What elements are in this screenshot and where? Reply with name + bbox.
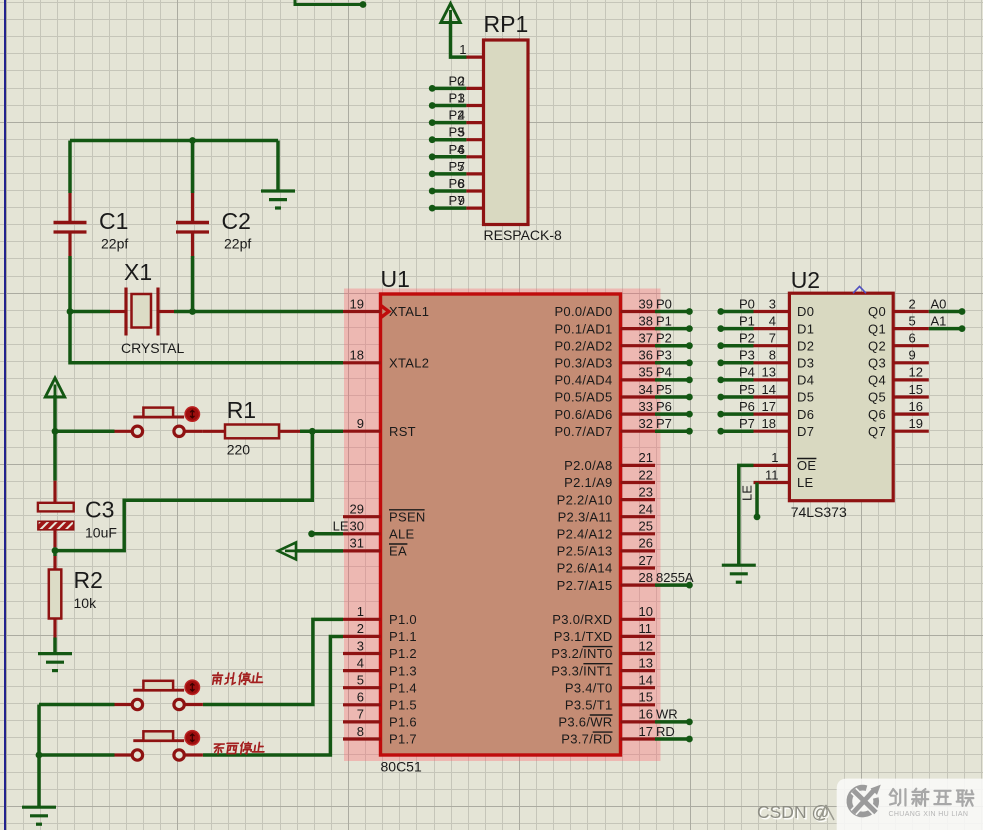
svg-text:1: 1 xyxy=(459,42,466,57)
svg-text:P1.5: P1.5 xyxy=(389,698,417,713)
svg-text:34: 34 xyxy=(639,382,653,397)
svg-text:U2: U2 xyxy=(791,267,820,293)
svg-text:15: 15 xyxy=(639,690,653,705)
svg-text:R2: R2 xyxy=(74,567,103,593)
svg-text:1: 1 xyxy=(771,450,778,465)
svg-text:R1: R1 xyxy=(227,397,256,423)
svg-text:13: 13 xyxy=(639,655,653,670)
svg-text:17: 17 xyxy=(762,399,776,414)
svg-text:P2.0/A8: P2.0/A8 xyxy=(564,458,612,473)
svg-text:7: 7 xyxy=(769,331,776,346)
svg-text:P3.3/INT1: P3.3/INT1 xyxy=(551,663,612,678)
svg-text:P1.4: P1.4 xyxy=(389,680,417,695)
svg-text:P7: P7 xyxy=(656,416,672,431)
svg-text:P3.5/T1: P3.5/T1 xyxy=(565,698,613,713)
svg-text:10: 10 xyxy=(639,604,653,619)
svg-text:P6: P6 xyxy=(739,399,755,414)
svg-text:13: 13 xyxy=(762,365,776,380)
svg-text:P2.2/A10: P2.2/A10 xyxy=(557,492,613,507)
svg-text:D5: D5 xyxy=(797,390,814,405)
svg-text:CSDN @: CSDN @ xyxy=(757,802,829,822)
svg-text:P5: P5 xyxy=(739,382,755,397)
svg-text:7: 7 xyxy=(458,159,465,174)
svg-text:8: 8 xyxy=(458,176,465,191)
svg-text:5: 5 xyxy=(458,125,465,140)
svg-text:220: 220 xyxy=(227,442,251,458)
svg-text:EA: EA xyxy=(389,544,407,559)
svg-text:P3: P3 xyxy=(739,348,755,363)
svg-text:P0.4/AD4: P0.4/AD4 xyxy=(554,373,612,388)
svg-text:Q3: Q3 xyxy=(868,356,886,371)
svg-text:C1: C1 xyxy=(99,208,128,234)
svg-text:ALE: ALE xyxy=(389,527,415,542)
svg-text:P0: P0 xyxy=(739,296,755,311)
svg-text:21: 21 xyxy=(639,450,653,465)
svg-text:31: 31 xyxy=(350,536,364,551)
svg-text:P5: P5 xyxy=(656,382,672,397)
svg-text:Q6: Q6 xyxy=(868,407,886,422)
svg-text:P0.3/AD3: P0.3/AD3 xyxy=(554,356,612,371)
svg-text:C3: C3 xyxy=(85,497,114,523)
svg-text:36: 36 xyxy=(639,348,653,363)
svg-text:22: 22 xyxy=(639,467,653,482)
svg-text:Q4: Q4 xyxy=(868,373,886,388)
svg-text:2: 2 xyxy=(909,296,916,311)
svg-text:C2: C2 xyxy=(222,208,251,234)
svg-text:14: 14 xyxy=(762,382,776,397)
svg-text:P2.4/A12: P2.4/A12 xyxy=(557,527,613,542)
svg-text:12: 12 xyxy=(909,365,923,380)
svg-text:74LS373: 74LS373 xyxy=(791,504,847,520)
svg-text:9: 9 xyxy=(458,193,465,208)
svg-text:A1: A1 xyxy=(931,313,947,328)
svg-text:P4: P4 xyxy=(739,365,755,380)
svg-text:P3.7/RD: P3.7/RD xyxy=(561,732,612,747)
svg-text:26: 26 xyxy=(639,536,653,551)
svg-text:P2.1/A9: P2.1/A9 xyxy=(564,475,612,490)
svg-text:D4: D4 xyxy=(797,373,814,388)
svg-text:P1.6: P1.6 xyxy=(389,715,417,730)
svg-text:LE: LE xyxy=(740,485,755,501)
svg-text:PSEN: PSEN xyxy=(389,509,426,524)
svg-text:P1.2: P1.2 xyxy=(389,646,417,661)
svg-text:RP1: RP1 xyxy=(484,11,529,37)
svg-text:U1: U1 xyxy=(381,266,410,292)
svg-text:37: 37 xyxy=(639,331,653,346)
svg-text:Q5: Q5 xyxy=(868,390,886,405)
svg-text:LE: LE xyxy=(797,475,814,490)
svg-text:2: 2 xyxy=(458,73,465,88)
svg-text:P2.3/A11: P2.3/A11 xyxy=(558,509,613,524)
svg-text:19: 19 xyxy=(909,416,923,431)
svg-text:27: 27 xyxy=(639,553,653,568)
svg-text:3: 3 xyxy=(458,91,465,106)
svg-text:LE: LE xyxy=(333,519,349,534)
svg-text:12: 12 xyxy=(639,638,653,653)
svg-text:7: 7 xyxy=(357,707,364,722)
svg-text:15: 15 xyxy=(909,382,923,397)
svg-text:P3: P3 xyxy=(656,348,672,363)
svg-text:Q2: Q2 xyxy=(868,338,886,353)
svg-text:32: 32 xyxy=(639,416,653,431)
svg-text:4: 4 xyxy=(458,108,465,123)
svg-text:Q0: Q0 xyxy=(868,304,886,319)
svg-text:8255A: 8255A xyxy=(656,570,694,585)
svg-text:D6: D6 xyxy=(797,407,814,422)
svg-text:1: 1 xyxy=(357,604,364,619)
svg-text:P4: P4 xyxy=(656,365,672,380)
svg-text:P2.5/A13: P2.5/A13 xyxy=(557,544,613,559)
svg-text:4: 4 xyxy=(357,655,364,670)
svg-text:CRYSTAL: CRYSTAL xyxy=(121,340,184,356)
svg-text:23: 23 xyxy=(639,484,653,499)
svg-text:11: 11 xyxy=(765,467,779,482)
svg-text:10k: 10k xyxy=(74,595,98,611)
svg-text:30: 30 xyxy=(350,519,364,534)
svg-text:D0: D0 xyxy=(797,304,814,319)
svg-text:P0: P0 xyxy=(656,296,672,311)
svg-text:2: 2 xyxy=(357,621,364,636)
svg-text:P0.6/AD6: P0.6/AD6 xyxy=(554,407,612,422)
svg-text:35: 35 xyxy=(639,365,653,380)
svg-text:3: 3 xyxy=(769,296,776,311)
svg-text:3: 3 xyxy=(357,638,364,653)
svg-text:8: 8 xyxy=(769,348,776,363)
svg-text:28: 28 xyxy=(639,570,653,585)
svg-text:P2: P2 xyxy=(656,331,672,346)
svg-text:P3.2/INT0: P3.2/INT0 xyxy=(551,646,612,661)
svg-text:10uF: 10uF xyxy=(85,525,117,541)
svg-text:WR: WR xyxy=(656,707,678,722)
svg-text:P3.4/T0: P3.4/T0 xyxy=(565,680,613,695)
svg-text:P2.6/A14: P2.6/A14 xyxy=(557,561,613,576)
svg-text:D3: D3 xyxy=(797,356,814,371)
svg-text:P1: P1 xyxy=(739,313,755,328)
svg-text:24: 24 xyxy=(639,502,653,517)
svg-text:Q1: Q1 xyxy=(868,321,886,336)
svg-text:P2.7/A15: P2.7/A15 xyxy=(557,578,613,593)
svg-text:RESPACK-8: RESPACK-8 xyxy=(484,227,563,243)
svg-text:P3.1/TXD: P3.1/TXD xyxy=(554,629,613,644)
svg-text:14: 14 xyxy=(639,673,653,688)
svg-text:9: 9 xyxy=(357,416,364,431)
svg-text:9: 9 xyxy=(909,348,916,363)
svg-text:16: 16 xyxy=(639,707,653,722)
svg-text:18: 18 xyxy=(762,416,776,431)
svg-text:38: 38 xyxy=(639,313,653,328)
svg-text:P7: P7 xyxy=(739,416,755,431)
svg-text:P0.5/AD5: P0.5/AD5 xyxy=(554,390,612,405)
svg-text:19: 19 xyxy=(350,296,364,311)
svg-text:6: 6 xyxy=(357,690,364,705)
svg-text:X1: X1 xyxy=(124,259,152,285)
svg-text:P3.6/WR: P3.6/WR xyxy=(558,715,612,730)
svg-text:OE: OE xyxy=(797,458,816,473)
svg-text:XTAL2: XTAL2 xyxy=(389,356,429,371)
svg-text:6: 6 xyxy=(909,331,916,346)
svg-text:P1.7: P1.7 xyxy=(389,732,417,747)
svg-text:P1.3: P1.3 xyxy=(389,663,417,678)
svg-text:18: 18 xyxy=(350,348,364,363)
svg-text:P1.1: P1.1 xyxy=(389,629,417,644)
svg-text:P6: P6 xyxy=(656,399,672,414)
svg-text:P1.0: P1.0 xyxy=(389,612,417,627)
svg-text:22pf: 22pf xyxy=(101,236,128,252)
svg-text:8: 8 xyxy=(357,724,364,739)
svg-text:P1: P1 xyxy=(656,313,672,328)
svg-text:33: 33 xyxy=(639,399,653,414)
svg-text:80C51: 80C51 xyxy=(381,759,422,775)
svg-text:16: 16 xyxy=(909,399,923,414)
svg-text:P3.0/RXD: P3.0/RXD xyxy=(552,612,612,627)
svg-text:39: 39 xyxy=(639,296,653,311)
svg-text:P2: P2 xyxy=(739,331,755,346)
svg-text:5: 5 xyxy=(909,313,916,328)
svg-text:P0.2/AD2: P0.2/AD2 xyxy=(554,338,612,353)
svg-text:CHUANG XIN HU LIAN: CHUANG XIN HU LIAN xyxy=(889,811,969,818)
svg-text:A0: A0 xyxy=(931,296,947,311)
svg-text:17: 17 xyxy=(639,724,653,739)
svg-text:6: 6 xyxy=(458,142,465,157)
svg-text:D2: D2 xyxy=(797,338,814,353)
svg-text:Q7: Q7 xyxy=(868,424,886,439)
svg-text:25: 25 xyxy=(639,519,653,534)
svg-text:P0.7/AD7: P0.7/AD7 xyxy=(554,424,612,439)
svg-text:RST: RST xyxy=(389,424,416,439)
svg-text:29: 29 xyxy=(350,502,364,517)
svg-text:4: 4 xyxy=(769,313,776,328)
svg-text:11: 11 xyxy=(639,621,653,636)
svg-text:22pf: 22pf xyxy=(224,236,251,252)
svg-text:XTAL1: XTAL1 xyxy=(389,304,429,319)
svg-text:RD: RD xyxy=(656,724,675,739)
svg-text:D1: D1 xyxy=(797,321,814,336)
svg-text:P0.1/AD1: P0.1/AD1 xyxy=(554,321,612,336)
svg-text:5: 5 xyxy=(357,673,364,688)
svg-text:P0.0/AD0: P0.0/AD0 xyxy=(554,304,612,319)
svg-text:D7: D7 xyxy=(797,424,814,439)
